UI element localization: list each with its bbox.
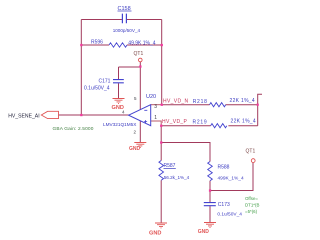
- node R596 left: [80, 44, 82, 46]
- wire left vertical: [80, 20, 82, 116]
- wire pin 1: [151, 121, 162, 125]
- svg-text:Offse=: Offse=: [245, 196, 258, 201]
- svg-text:QT1: QT1: [134, 51, 144, 57]
- ground under opamp: [134, 143, 146, 148]
- wire bottom right horizontal: [210, 163, 253, 191]
- svg-text:22K 1%_4: 22K 1%_4: [230, 98, 255, 104]
- svg-text:3: 3: [154, 104, 157, 110]
- port HV_SENE_AI: [41, 111, 58, 118]
- svg-text:C173: C173: [218, 202, 230, 208]
- wire right bus: [258, 94, 262, 125]
- svg-text:GND: GND: [198, 229, 210, 235]
- resistor R218: [210, 103, 226, 107]
- ground under R587: [155, 223, 167, 228]
- node R588 bottom: [209, 189, 211, 191]
- wire R587 bottom lead: [160, 180, 162, 222]
- wire R587 top lead: [160, 143, 162, 161]
- wire pin 3: [151, 104, 162, 106]
- wire feedback vertical: [161, 20, 163, 105]
- node feedback R596 right: [161, 44, 163, 46]
- resistor R588: [208, 162, 213, 181]
- capacitor C158: [122, 14, 126, 24]
- label R587: [164, 163, 176, 169]
- svg-text:R596: R596: [91, 40, 103, 46]
- svg-text:GBA Gain: 2.5000: GBA Gain: 2.5000: [53, 126, 94, 132]
- wire C171 top lead: [118, 67, 120, 79]
- wire top feedback: [81, 19, 161, 21]
- wire opamp output: [59, 114, 130, 116]
- svg-text:=5*(6): =5*(6): [245, 209, 258, 214]
- label C158: [118, 6, 132, 12]
- capacitor C171: [113, 80, 124, 83]
- svg-text:5: 5: [134, 96, 137, 101]
- wire C171 bottom lead: [118, 83, 120, 98]
- svg-text:56.2k_1%_4: 56.2k_1%_4: [164, 175, 190, 180]
- svg-text:HV_SENE_AI: HV_SENE_AI: [8, 114, 39, 120]
- node Vplus: [139, 65, 141, 67]
- svg-text:R588: R588: [218, 164, 230, 170]
- svg-text:U20: U20: [146, 94, 156, 100]
- wire C173 bottom lead: [209, 206, 211, 222]
- svg-text:499K_1%_4: 499K_1%_4: [218, 175, 244, 181]
- wire row1 HV_VD_N: [162, 104, 258, 106]
- testpoint QT1 right: [246, 149, 256, 163]
- node pin3: [161, 104, 163, 106]
- svg-text:2: 2: [134, 130, 137, 135]
- wire opamp V+ pin 5: [139, 67, 141, 110]
- svg-text:DT1*(B: DT1*(B: [245, 203, 259, 208]
- resistor R596: [109, 43, 127, 47]
- wire row2 HV_VD_P: [161, 125, 258, 127]
- ground under C173: [204, 223, 216, 228]
- wire C173 top lead: [209, 191, 211, 203]
- op-amp U20: [129, 105, 151, 126]
- wire row2 drop: [160, 126, 162, 143]
- node pin1: [160, 125, 162, 127]
- svg-text:0.1u/50V_4: 0.1u/50V_4: [84, 86, 110, 92]
- wire testpoint QT1 stub: [139, 62, 141, 67]
- svg-text:22K 1%_4: 22K 1%_4: [231, 119, 256, 125]
- svg-text:GND: GND: [149, 231, 161, 237]
- svg-text:4: 4: [122, 109, 125, 114]
- svg-text:0.1u/50V_4: 0.1u/50V_4: [217, 211, 242, 217]
- wire V+ rail: [119, 66, 141, 68]
- wire R588 bottom: [209, 181, 211, 191]
- svg-text:1000p/50V_4: 1000p/50V_4: [113, 28, 141, 33]
- svg-text:R219: R219: [193, 119, 208, 125]
- svg-text:QT1: QT1: [246, 149, 256, 155]
- svg-text:HV_VD_N: HV_VD_N: [163, 99, 189, 105]
- svg-text:1: 1: [154, 115, 157, 121]
- svg-text:HV_VD_P: HV_VD_P: [162, 119, 188, 125]
- svg-text:49.9K 1%_4: 49.9K 1%_4: [128, 40, 155, 46]
- svg-text:GND: GND: [129, 146, 141, 152]
- node right bus: [257, 104, 259, 106]
- note offset green: [245, 196, 259, 214]
- ground under C171: [113, 99, 125, 104]
- svg-text:R218: R218: [193, 99, 208, 105]
- wire opamp V- pin 2: [139, 121, 141, 143]
- capacitor C173: [204, 203, 216, 206]
- svg-text:C171: C171: [99, 79, 111, 85]
- wire R596 row: [81, 44, 161, 46]
- resistor R219: [211, 124, 227, 128]
- node output: [80, 114, 82, 116]
- svg-text:LMV321Q1M5X: LMV321Q1M5X: [103, 122, 137, 127]
- resistor R587: [159, 161, 164, 181]
- wire mid horizontal: [161, 143, 210, 162]
- node R587 top: [160, 141, 162, 143]
- testpoint QT1 top: [134, 51, 144, 62]
